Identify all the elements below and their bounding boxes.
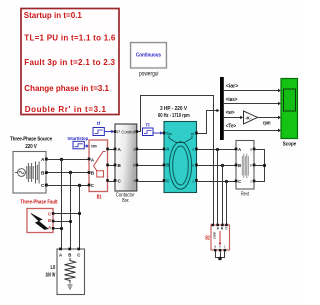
svg-text:<Te>: <Te> (226, 123, 237, 129)
svg-text:powergui: powergui (139, 71, 159, 78)
svg-text:Rext: Rext (241, 192, 249, 198)
wire rotor c: motor to Rext (198, 181, 236, 183)
svg-text:A: A (59, 253, 62, 258)
svg-text:Change phase in t=3.1: Change phase in t=3.1 (24, 84, 109, 93)
svg-text:a: a (214, 245, 216, 249)
asynchronous machine motor (163, 122, 198, 193)
wire rotor c drop to B2 (226, 182, 228, 225)
label Contactor Box (116, 193, 135, 205)
svg-text:Scope: Scope (283, 141, 297, 147)
three-phase fault block (27, 209, 54, 233)
source port squares (45, 158, 48, 161)
svg-text:Box: Box (122, 198, 129, 204)
wire phase C: source to breaker B1 (48, 185, 89, 187)
svg-text:A: A (41, 157, 45, 163)
svg-text:B1: B1 (97, 195, 102, 201)
svg-text:b: b (219, 245, 221, 249)
wire phase A: source to breaker B1 (48, 159, 89, 161)
svg-text:B: B (238, 163, 241, 168)
junction B2 star point (218, 257, 222, 261)
wire phase A drop to load (61, 160, 63, 249)
svg-text:Double Rr' in t=3.1: Double Rr' in t=3.1 (25, 105, 107, 114)
svg-text:100 W: 100 W (45, 272, 55, 278)
breaker B2 (211, 224, 230, 252)
svg-text:Tm: Tm (166, 132, 172, 136)
svg-text:Three-Phase Source: Three-Phase Source (10, 137, 52, 143)
svg-text:b: b (192, 164, 194, 168)
junction phase A tap (60, 158, 63, 161)
svg-text:B: B (41, 171, 45, 177)
junction fault A on phase A drop (60, 227, 63, 230)
timer Tl (143, 123, 164, 136)
breaker B1 (88, 140, 109, 192)
svg-text:<w>: <w> (226, 110, 235, 116)
svg-text:<iar>: <iar> (226, 84, 239, 90)
svg-text:60 Hz - 1710 rpm: 60 Hz - 1710 rpm (158, 113, 190, 119)
ground (68, 285, 73, 289)
svg-text:rpm: rpm (263, 121, 271, 127)
junction rotor a tap (216, 148, 219, 151)
wire phase a: contactor to motor (138, 149, 164, 151)
wire control: contactor to breaker B2 com (138, 96, 213, 225)
svg-text:c: c (192, 180, 194, 184)
wire rotor star b: Rext to star node (255, 165, 264, 167)
wire phase B: source to breaker B1 (48, 172, 89, 174)
svg-text:3 HP - 220 V: 3 HP - 220 V (160, 106, 187, 112)
timer tf (93, 121, 114, 136)
svg-text:P: P (117, 130, 120, 135)
svg-text:com: com (213, 232, 217, 239)
wire rotor a drop to B2 (217, 150, 219, 225)
wire rotor star a: Rext to star node (255, 150, 264, 166)
svg-text:Continuous: Continuous (136, 53, 161, 59)
wire rotor b drop to B2 (222, 166, 224, 225)
wire m: motor to demux bar (198, 111, 217, 134)
junction phase B tap (69, 171, 72, 174)
wire B2 outputs to star point (216, 252, 225, 258)
junction rotor b tap (221, 164, 224, 167)
wire phase c: B1 to contactor (109, 181, 115, 183)
svg-text:220 V: 220 V (25, 144, 37, 150)
svg-text:Startup in t=0.1: Startup in t=0.1 (24, 11, 83, 20)
junction fault B on phase B drop (69, 220, 72, 223)
scope (281, 79, 298, 139)
label L0 100 W (45, 265, 55, 278)
resistor block Rext (235, 141, 256, 190)
wire rotor b: motor to Rext (198, 165, 236, 167)
contactor box (114, 124, 139, 191)
timer tstart/stop (68, 136, 90, 149)
svg-text:B2: B2 (205, 236, 209, 242)
svg-text:com: com (91, 143, 97, 148)
svg-text:TL=1 PU in t=1.1 to 1.6: TL=1 PU in t=1.1 to 1.6 (24, 33, 116, 42)
label: Three-Phase Source 220 V (10, 137, 52, 150)
wire phase c: contactor to motor (138, 181, 164, 183)
svg-text:b: b (250, 164, 252, 168)
powergui block (131, 43, 167, 78)
svg-text:<ias>: <ias> (226, 97, 238, 103)
three-phase source block (13, 152, 48, 194)
wire phase b: B1 to contactor (109, 165, 115, 167)
svg-text:-K-: -K- (245, 115, 252, 120)
wire signal w: bar to gain (223, 110, 243, 119)
wire phase b: contactor to motor (138, 165, 164, 167)
wire fault A stub (54, 228, 61, 230)
svg-text:B: B (166, 163, 169, 168)
wire signal rpm: gain to scope (258, 116, 281, 120)
junction rotor c tap (225, 180, 228, 183)
svg-text:c: c (250, 180, 252, 184)
svg-text:b: b (133, 164, 135, 168)
annotation box: timing notes (21, 9, 119, 115)
wire signal Te: bar to scope (223, 123, 280, 132)
svg-text:B: B (68, 253, 71, 258)
wire phase B drop to load (70, 173, 72, 249)
wire signal ias: bar to scope (223, 97, 280, 106)
load block L0 100 W (57, 248, 85, 295)
svg-text:C: C (77, 253, 80, 258)
wire phase a: B1 to contactor (109, 149, 115, 151)
junction fault C on phase C drop (78, 212, 81, 215)
label: 3 HP - 220 V / 60 Hz - 1710 rpm (158, 106, 190, 119)
wire fault C stub (54, 213, 79, 215)
svg-text:C: C (41, 183, 45, 189)
svg-text:Three-Phase Fault: Three-Phase Fault (20, 200, 57, 206)
wire fault B stub (54, 221, 70, 223)
junction phase C tap (78, 184, 81, 187)
gain -K- rpm conversion (244, 111, 258, 124)
wire signal iar: bar to scope (223, 84, 280, 93)
wire rotor star c: Rext to star node (255, 166, 264, 182)
wire rotor a: motor to Rext (198, 149, 236, 151)
svg-text:c: c (133, 179, 135, 183)
demux bus selector bar (220, 77, 224, 140)
wire phase C drop to load (79, 186, 81, 249)
svg-text:Control: Control (121, 130, 135, 135)
junction star node (263, 164, 266, 167)
svg-text:Fault 3p in t=2.1 to 2.3: Fault 3p in t=2.1 to 2.3 (24, 58, 115, 67)
svg-text:L0: L0 (51, 265, 56, 271)
svg-text:tf: tf (97, 121, 101, 127)
